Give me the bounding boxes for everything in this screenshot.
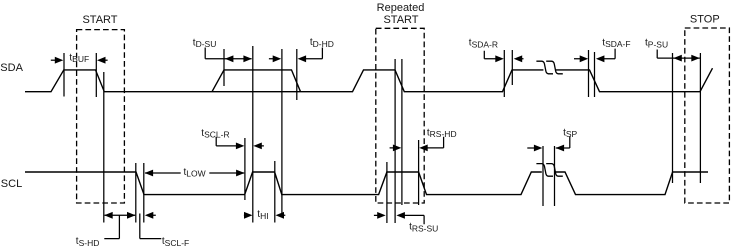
arrowhead tD-HD right (points left)	[298, 55, 307, 62]
arrowhead tSDA-R right (points left)	[514, 55, 523, 62]
tick SCL RS rise end / tRS-SU left	[386, 162, 388, 223]
dimension tLOW line	[145, 172, 244, 174]
tick SDA RS fall end (long) / tRS-HD left	[401, 59, 403, 205]
dimension tSCL-R shafts and leader	[216, 137, 264, 146]
tick SCL fall end / tSCL-F right	[143, 163, 145, 223]
tick SCL fall start / tHI right	[274, 161, 276, 223]
dimension tD-HD shafts and leader	[269, 48, 323, 59]
dimension tRS-HD shafts and leader	[390, 137, 444, 148]
arrowhead tSDA-R left (points right)	[495, 55, 504, 62]
dimension tRS-SU shafts and leader	[374, 215, 424, 224]
arrowhead tSDA-F left (points right)	[580, 55, 589, 62]
arrowhead tRS-HD right (points left)	[419, 145, 428, 152]
arrowhead tSP left (points right)	[534, 145, 543, 152]
SDA break squiggle 1	[536, 61, 553, 74]
tick SCL RS fall start / tRS-HD right	[418, 140, 420, 205]
arrowhead tD-SU right (points right)	[243, 55, 252, 62]
tick SDA change / tD-HD right	[296, 49, 298, 100]
tick SCL rise end (long)	[252, 46, 254, 223]
arrowhead tSCL-R left (points right)	[236, 143, 245, 150]
dimension tSCL-F shaft and leader	[140, 214, 162, 239]
dimension tSDA-R shafts and leader	[484, 51, 523, 59]
arrowhead tS-HD right (points right)	[127, 212, 136, 219]
svg-text:SDA: SDA	[0, 62, 23, 74]
arrowhead tRS-SU right (points left)	[396, 212, 405, 219]
arrowhead tSCL-F right (points left)	[145, 212, 154, 219]
dimension tSDA-F shafts and leader	[574, 49, 615, 59]
dimension tS-HD line and leader	[104, 215, 135, 238]
START dashed box	[77, 30, 125, 203]
tick SCL rise start / tLOW right	[244, 138, 246, 200]
dimension tP-SU line with leader	[657, 50, 700, 59]
arrowhead tHI right (points left)	[276, 212, 285, 219]
svg-text:tSP: tSP	[563, 127, 577, 139]
svg-text:tLOW: tLOW	[184, 167, 206, 179]
svg-text:SCL: SCL	[1, 178, 22, 190]
dimension tD-SU line with leader	[205, 48, 251, 59]
tick tSP left	[542, 146, 544, 206]
tick tBUF left	[63, 53, 65, 97]
Repeated START dashed box	[376, 28, 424, 203]
arrowhead tP-SU right (points right)	[691, 55, 700, 62]
STOP dashed box	[685, 28, 730, 203]
svg-text:tSDA-R: tSDA-R	[469, 38, 498, 50]
tick SDA stop rise start / tP-SU right (long)	[699, 53, 701, 183]
dimension tHI shafts	[244, 214, 285, 216]
arrowhead tLOW right (points right)	[236, 170, 245, 177]
arrowhead tRS-SU left (points right)	[377, 212, 386, 219]
tick SCL fall start / tS-HD right	[135, 163, 137, 223]
arrowhead tRS-HD left (points right)	[393, 145, 402, 152]
arrowhead tBUF left (points right)	[55, 57, 64, 64]
svg-text:tRS-SU: tRS-SU	[409, 222, 438, 234]
tick SDA data valid / tD-SU left	[223, 49, 225, 86]
dimension tBUF shafts	[51, 59, 56, 61]
tick tBUF right / SDA fall start	[95, 53, 97, 97]
arrowhead tBUF right (points left)	[97, 57, 106, 64]
arrowhead tHI left (points right)	[244, 212, 253, 219]
svg-text:tSCL-F: tSCL-F	[162, 236, 189, 248]
tick SDA fall end / tS-HD left (long)	[103, 72, 105, 223]
tick SCL stop rise end / tP-SU left (long)	[672, 53, 674, 183]
svg-text:tS-HD: tS-HD	[76, 236, 100, 248]
tick SDA RS fall start (long) / tRS-SU right	[394, 59, 396, 223]
svg-text:Repeated: Repeated	[377, 2, 425, 14]
arrowhead tSP right (points left)	[556, 145, 565, 152]
SDA break squiggle 2	[546, 61, 563, 74]
svg-text:tHI: tHI	[257, 209, 268, 221]
svg-text:START: START	[383, 14, 418, 26]
svg-text:tD-SU: tD-SU	[193, 37, 217, 49]
SCL break squiggle 2	[546, 164, 563, 177]
tick SDA rise start / tSDA-R left	[503, 50, 505, 97]
svg-text:tD-HD: tD-HD	[310, 37, 334, 49]
arrowhead tSDA-F right (points left)	[596, 55, 605, 62]
SCL waveform main trace	[25, 172, 708, 195]
arrowhead tSCL-R right (points left)	[253, 143, 261, 150]
arrowhead tP-SU left (points left)	[673, 55, 682, 62]
tick tSP right	[554, 146, 556, 206]
SCL break squiggle 1	[536, 164, 553, 177]
tick SCL fall end (long) / tD-HD left	[281, 49, 283, 215]
arrowhead tLOW left (points left)	[145, 170, 154, 177]
tick SDA rise end / tSDA-R right	[511, 50, 513, 85]
dimension tSP shafts and leader	[527, 136, 570, 148]
arrowhead tD-SU left (points left)	[225, 55, 234, 62]
svg-text:STOP: STOP	[690, 14, 720, 26]
tick SDA fall end / tSDA-F right	[594, 52, 596, 97]
svg-text:START: START	[82, 14, 117, 26]
SDA waveform main trace	[25, 68, 713, 92]
svg-text:tBUF: tBUF	[69, 52, 89, 64]
svg-text:tSCL-R: tSCL-R	[201, 128, 229, 140]
svg-text:tRS-HD: tRS-HD	[427, 127, 457, 139]
svg-text:tP-SU: tP-SU	[645, 38, 668, 50]
arrowhead tS-HD left (points left)	[104, 212, 113, 219]
svg-text:tSDA-F: tSDA-F	[602, 37, 630, 49]
arrowhead tD-HD left (points right)	[273, 55, 282, 62]
tick SDA fall start / tSDA-F left	[588, 50, 590, 97]
SDA data pulse bubble	[212, 70, 301, 92]
